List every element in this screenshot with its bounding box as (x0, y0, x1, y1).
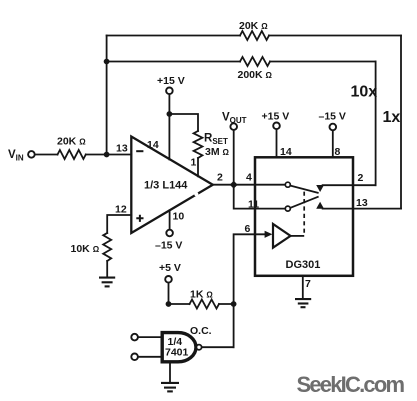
svg-text:–15 V: –15 V (319, 111, 346, 123)
svg-text:10K Ω: 10K Ω (71, 243, 100, 255)
op-amp minus sign (136, 150, 143, 152)
svg-text:+15 V: +15 V (262, 111, 290, 123)
wire op-amp pin 12 (107, 215, 131, 233)
resistor R 10K (103, 233, 111, 261)
wire DG301 pin 2 to 1x line (323, 184, 376, 186)
svg-text:20K Ω: 20K Ω (57, 136, 86, 148)
wire node to DG301 pin 11 (234, 185, 286, 209)
wire op-amp pin 10 to -15V (169, 210, 171, 229)
junction node +5V 1K left (166, 301, 172, 307)
switch arm from pin 11 (290, 197, 318, 208)
NAND gate U3 1/4 7401 body (162, 333, 196, 362)
NAND input terminal B (131, 354, 138, 361)
wire 200K horizontal right (270, 61, 376, 63)
wire inverter output (291, 235, 305, 237)
resistor RSET 3M (194, 131, 203, 158)
IC U2 DG301 box (255, 157, 353, 275)
resistor R 200K feedback (240, 57, 270, 66)
svg-text:2: 2 (217, 172, 223, 184)
resistor R 1K (190, 300, 220, 309)
svg-text:7: 7 (305, 278, 311, 290)
wire feedback left vertical (106, 36, 108, 155)
wire VIN to resistor (35, 154, 58, 156)
switch throw arrow pin 2 (316, 185, 324, 192)
wire NAND input A (138, 336, 162, 338)
svg-text:3M Ω: 3M Ω (205, 146, 230, 158)
wire top 10x horizontal right (269, 35, 401, 37)
svg-text:20K Ω: 20K Ω (239, 20, 268, 32)
svg-text:1K Ω: 1K Ω (190, 289, 213, 301)
wire 200K horizontal left (107, 61, 240, 63)
wire op-amp output pin 2 (213, 184, 234, 186)
wire right outer vertical (400, 36, 402, 209)
op-amp bottom edge scan gap (194, 192, 198, 196)
wire DG301 pin 14 supply (276, 129, 278, 157)
ground NAND gate (161, 383, 179, 392)
svg-text:14: 14 (280, 146, 292, 158)
op-amp U1 1/3 L144 (131, 137, 213, 234)
svg-text:1x: 1x (383, 109, 401, 126)
wire DG301 pin 6 (234, 234, 265, 347)
junction node op-amp output (230, 181, 238, 189)
wire NAND ground stem (169, 362, 171, 383)
ground 10K resistor (99, 278, 115, 287)
wire 20K to op-amp pin 13 (86, 154, 132, 156)
resistor R 20K feedback (240, 31, 269, 40)
svg-text:2: 2 (358, 172, 364, 184)
wire +5V supply down (168, 283, 170, 304)
wire right inner vertical (375, 62, 377, 186)
ground DG301 pin 7 (295, 299, 311, 307)
svg-text:7401: 7401 (165, 347, 189, 359)
svg-text:6: 6 (245, 223, 251, 235)
svg-text:10: 10 (173, 211, 185, 223)
switch throw arrow pin 13 (316, 202, 324, 209)
wire 1K to vertical node (219, 303, 234, 305)
svg-text:+5 V: +5 V (159, 262, 181, 274)
wire DG301 pin 7 ground stem (302, 276, 304, 299)
svg-text:–15 V: –15 V (155, 240, 182, 252)
wire +5V node to 1K (169, 303, 190, 305)
wire RSET to op-amp pin 1 (197, 158, 199, 176)
driver inverter triangle (273, 224, 291, 248)
driver inverter input arrow (265, 231, 273, 238)
wire 10K to ground (106, 261, 108, 278)
wire VOUT stem (233, 130, 235, 185)
terminal +5V (165, 276, 172, 283)
terminal +15V DG301 (273, 123, 280, 130)
wire node to DG301 pin 4 (234, 184, 286, 186)
switch pole contact pin 4 (285, 182, 290, 187)
svg-text:200K Ω: 200K Ω (238, 69, 273, 81)
svg-text:1: 1 (191, 157, 197, 169)
junction node 1K right (231, 301, 237, 307)
terminal +15V op-amp (166, 88, 173, 95)
svg-text:13: 13 (116, 143, 128, 155)
wire NAND input B (138, 356, 162, 358)
svg-text:DG301: DG301 (286, 259, 321, 271)
svg-text:1/3 L144: 1/3 L144 (144, 180, 188, 192)
svg-text:O.C.: O.C. (190, 325, 212, 337)
wire NAND output (202, 346, 234, 348)
junction node +15V RSET tap (167, 111, 173, 117)
terminal VOUT (230, 123, 237, 130)
svg-text:SeekIC.com: SeekIC.com (297, 372, 405, 397)
wire +15V supply to op-amp pin 14 (168, 94, 170, 159)
terminal VIN (28, 151, 35, 158)
svg-text:4: 4 (246, 172, 252, 184)
op-amp plus sign (136, 215, 143, 222)
wire top 10x horizontal left (107, 35, 240, 37)
switch pole contact pin 11 (285, 206, 290, 211)
wire +15V node to RSET (169, 114, 198, 131)
dashed control line (303, 192, 305, 236)
svg-text:8: 8 (335, 146, 341, 158)
terminal -15V DG301 (330, 124, 337, 131)
wire DG301 pin 13 to 10x line (323, 208, 401, 210)
wire DG301 pin 8 supply (332, 130, 334, 157)
terminal -15V op-amp (166, 230, 173, 237)
NAND output bubble O.C. (196, 345, 201, 350)
svg-text:12: 12 (115, 204, 127, 216)
svg-text:+15 V: +15 V (157, 75, 185, 87)
resistor R 20K input (58, 150, 86, 159)
NAND input terminal A (131, 334, 138, 341)
svg-text:13: 13 (356, 197, 368, 209)
junction node 200K tap (104, 59, 110, 65)
switch arm from pin 4 (290, 186, 318, 193)
junction node VIN summing (104, 152, 110, 158)
svg-text:10x: 10x (351, 84, 378, 101)
svg-text:14: 14 (147, 139, 159, 151)
svg-text:11: 11 (248, 199, 259, 211)
